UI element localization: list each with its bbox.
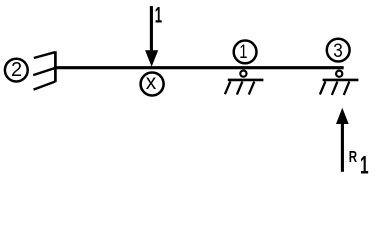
svg-text:x: x (146, 71, 157, 94)
node circle 3 (327, 39, 350, 62)
roller 1 circle (240, 71, 246, 77)
roller 1 ground line (228, 79, 264, 82)
svg-text:3: 3 (333, 39, 343, 61)
node circle 1 (234, 41, 257, 64)
svg-text:1: 1 (239, 41, 247, 62)
roller 1 hatch c (249, 82, 255, 95)
reaction arrow R1 shaft (341, 122, 344, 172)
node circle 2 (5, 59, 28, 82)
roller 3 hatch c (344, 82, 350, 95)
beam (56, 66, 344, 69)
roller 3 ground line (323, 79, 359, 82)
load arrow 1 head (145, 50, 158, 67)
element circle x (141, 73, 164, 96)
svg-text:1: 1 (360, 152, 369, 178)
roller 1 hatch a (225, 81, 231, 94)
reaction arrow R1 head (336, 108, 349, 124)
fixed support wall (54, 51, 57, 82)
wall hatch middle (33, 68, 56, 75)
roller 3 hatch b (332, 82, 338, 95)
wall hatch bottom (34, 82, 56, 90)
roller 3 hatch a (320, 81, 326, 94)
svg-text:1: 1 (155, 3, 162, 27)
wall hatch top (34, 52, 55, 58)
svg-text:R: R (349, 147, 357, 165)
roller 1 hatch b (237, 82, 243, 95)
load arrow 1 shaft (150, 6, 153, 52)
svg-text:2: 2 (11, 59, 22, 81)
roller 3 circle (336, 71, 342, 77)
